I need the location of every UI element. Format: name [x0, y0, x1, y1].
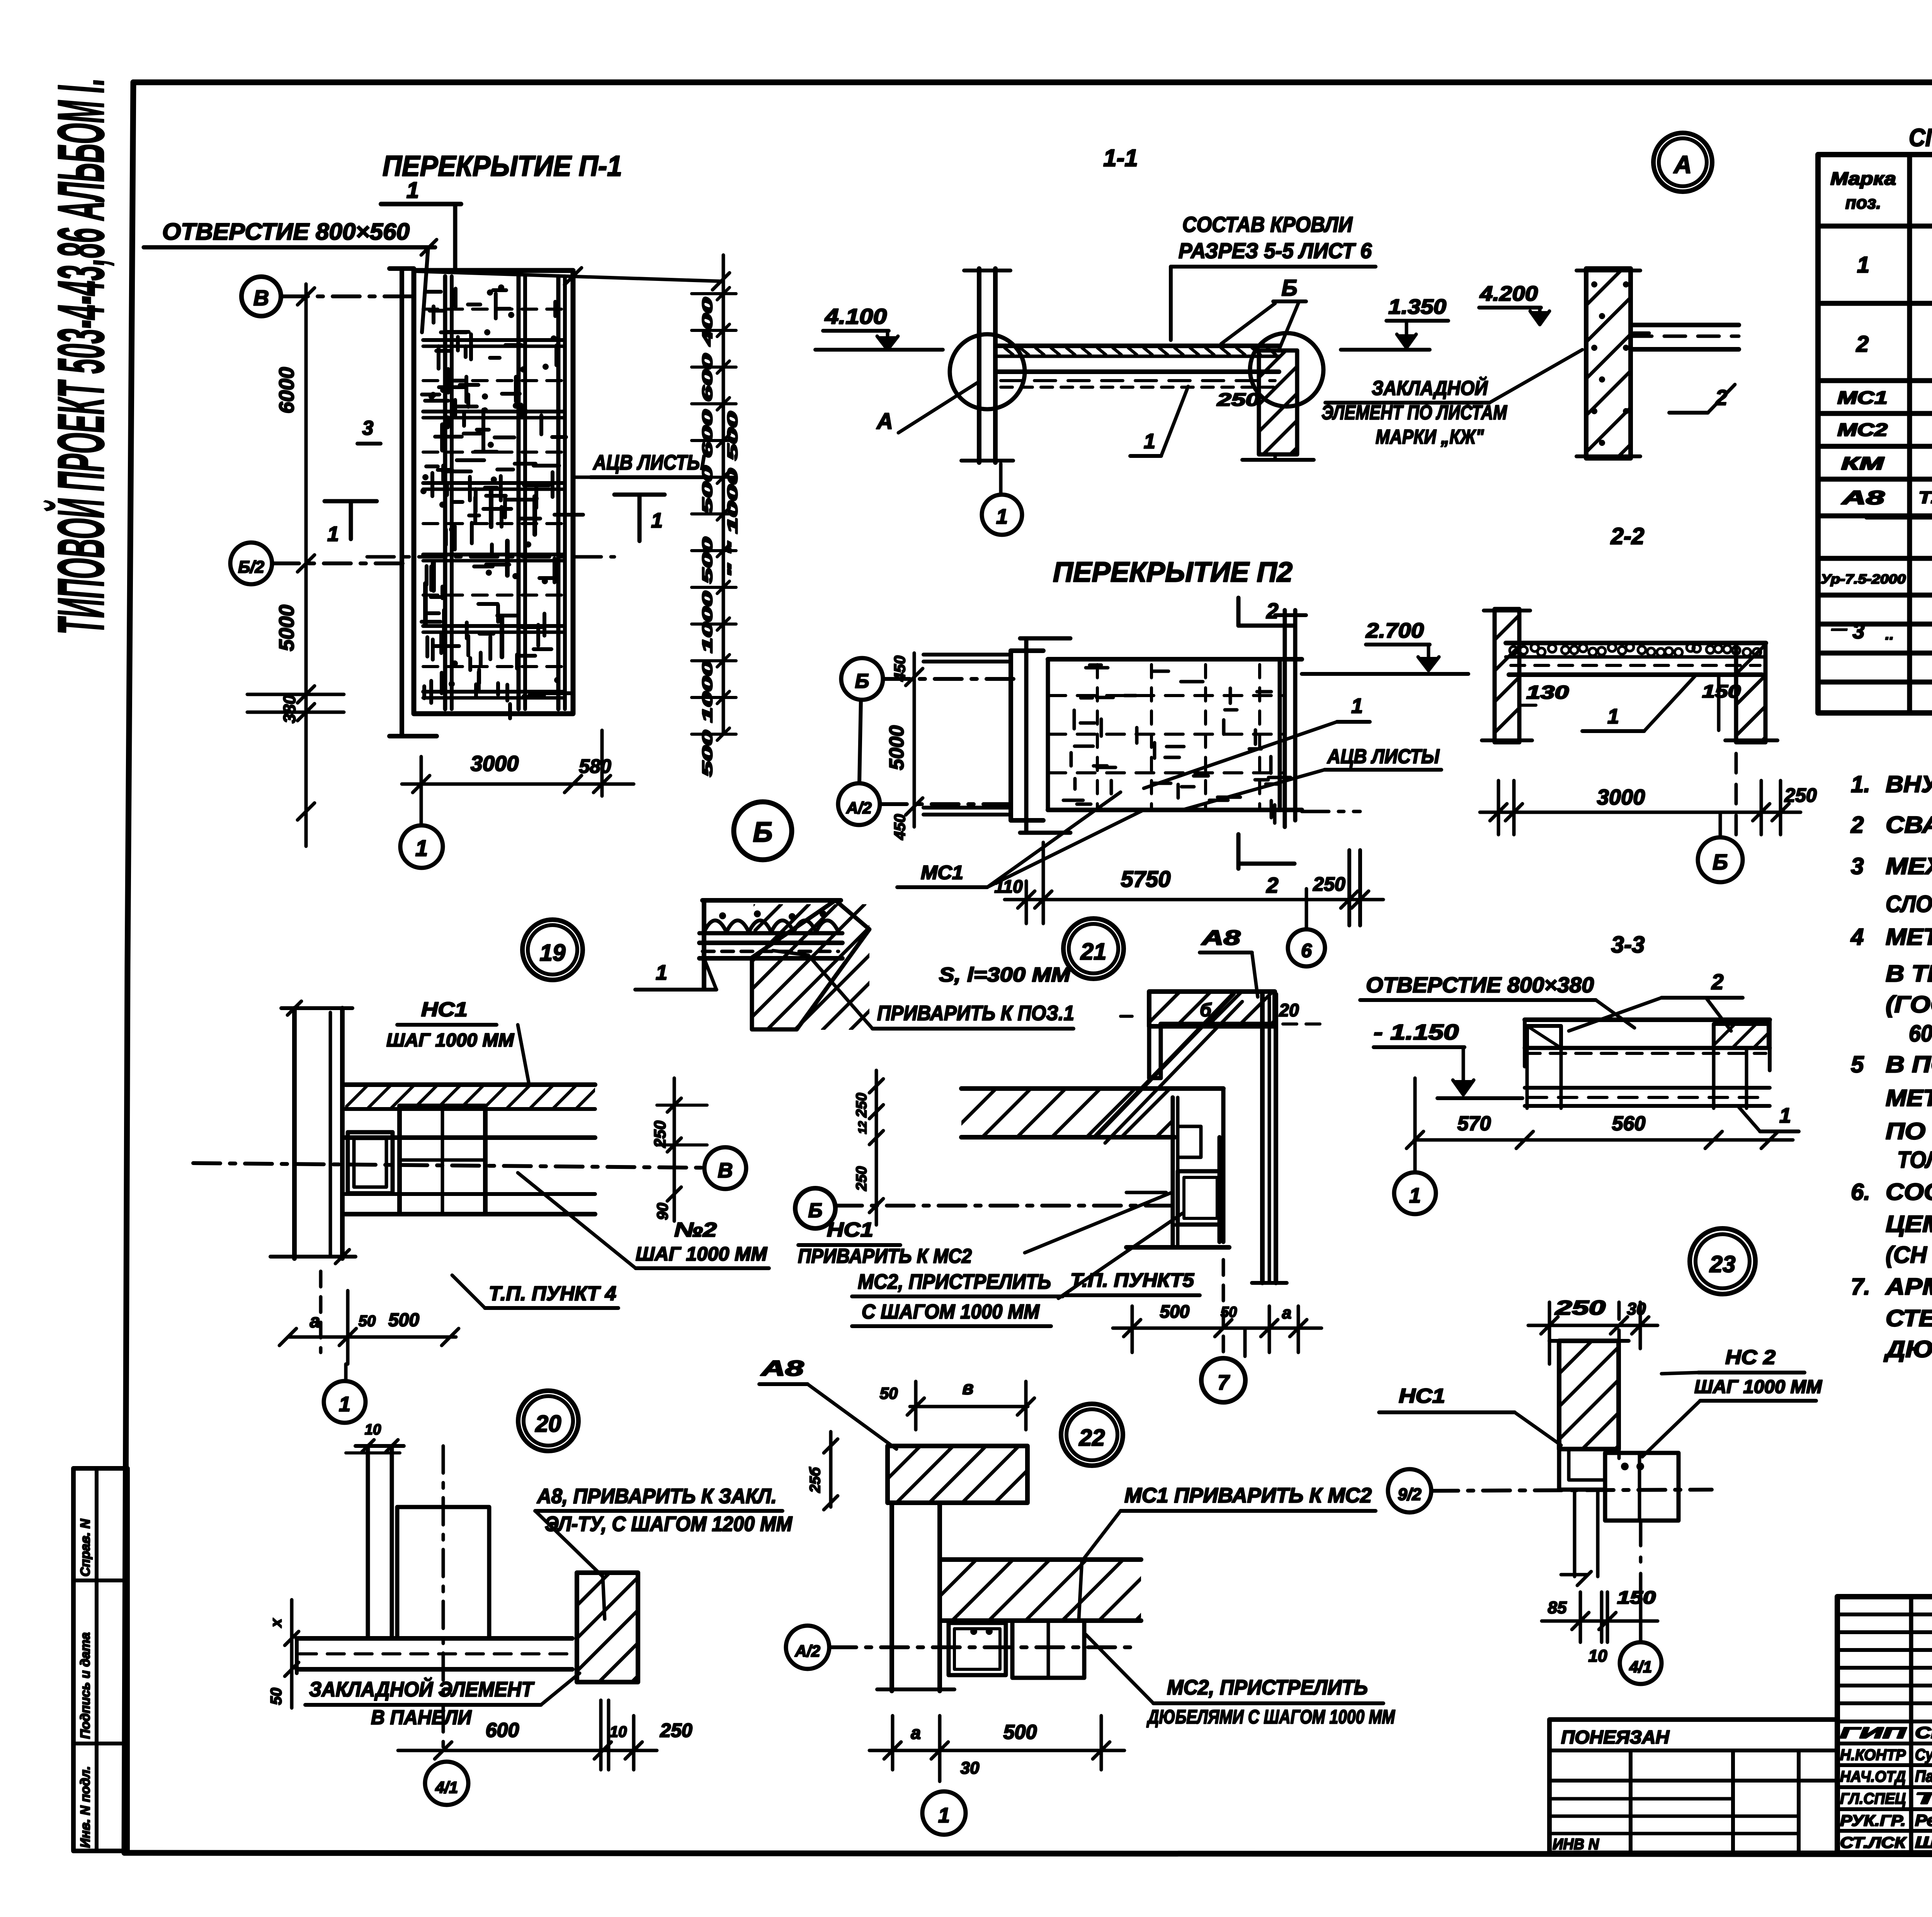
detail number 22	[1061, 1404, 1123, 1466]
svg-text:ПЕРЕКРЫТИЕ П-1: ПЕРЕКРЫТИЕ П-1	[383, 150, 622, 182]
detail number 21	[1063, 919, 1124, 979]
svg-text:570: 570	[1458, 1112, 1491, 1135]
svg-text:10: 10	[1588, 1647, 1607, 1665]
svg-text:СТ.ЛСК: СТ.ЛСК	[1840, 1834, 1907, 1851]
svg-text:Сухновская: Сухновская	[1915, 1745, 1932, 1764]
top dimension line to right column	[415, 271, 723, 281]
detail 21 bottom dim 500 50 a	[1131, 1306, 1134, 1352]
svg-text:250: 250	[854, 1166, 870, 1191]
svg-text:МЕТАЛЛИЧЕСКИЕ ФАХВЕРКОВЫЕ С: МЕТАЛЛИЧЕСКИЕ ФАХВЕРКОВЫЕ СТОЙКИ ОШТУКАТ…	[1886, 1085, 1932, 1111]
svg-text:НАЧ.ОТД: НАЧ.ОТД	[1840, 1768, 1906, 1785]
svg-text:ТОЛЩИНОЙ 25: ТОЛЩИНОЙ 25	[1897, 1146, 1932, 1173]
svg-text:МС1: МС1	[921, 862, 963, 883]
2-2 right wall (concrete)	[1586, 269, 1631, 458]
svg-text:Б: Б	[753, 817, 773, 848]
svg-text:2: 2	[1856, 332, 1869, 357]
svg-text:1: 1	[1857, 252, 1869, 277]
svg-text:ПЕРЕКРЫТИЕ П2: ПЕРЕКРЫТИЕ П2	[1053, 557, 1293, 588]
svg-text:НС 2: НС 2	[1725, 1346, 1776, 1369]
svg-text:АЦВ ЛИСТЫ: АЦВ ЛИСТЫ	[1327, 745, 1440, 768]
1-1 right column	[1259, 350, 1297, 454]
section mark 1 (top)	[381, 202, 461, 206]
svg-text:..: ..	[1885, 626, 1894, 643]
2-2 bottom dimension 3000 250	[1497, 781, 1500, 835]
svg-text:А8: А8	[760, 1356, 804, 1380]
detail number 20	[518, 1391, 578, 1451]
slab entering from right	[1631, 323, 1739, 327]
svg-text:поз.: поз.	[1845, 192, 1881, 213]
svg-text:1: 1	[327, 522, 339, 546]
section mark 1 (left mid)	[325, 499, 377, 503]
svg-text:МС1: МС1	[1837, 388, 1888, 408]
diagonal brace	[1096, 994, 1233, 1136]
svg-text:В ТЕПЛОВОМ ПУНКТЕ ОШТУКАТУРИ: В ТЕПЛОВОМ ПУНКТЕ ОШТУКАТУРИТЬ ПО СЕТКЕ …	[1886, 961, 1932, 987]
svg-text:85: 85	[1548, 1598, 1567, 1617]
svg-text:7.: 7.	[1851, 1274, 1870, 1300]
svg-text:СОСТАВ КРОВЛИ: СОСТАВ КРОВЛИ	[1182, 212, 1353, 236]
axis circle 4/1 (detail 20)	[425, 1762, 468, 1805]
svg-text:3000: 3000	[471, 751, 519, 776]
svg-text:А/2: А/2	[846, 799, 871, 817]
svg-text:ШАГ 1000 ММ: ШАГ 1000 ММ	[636, 1243, 767, 1265]
2-2 right wall	[1736, 643, 1765, 742]
axis circles Б and А/2 of П2	[841, 658, 883, 700]
svg-text:500: 500	[1003, 1721, 1037, 1744]
svg-text:3: 3	[362, 417, 374, 439]
svg-text:5750: 5750	[1121, 867, 1170, 892]
svg-text:20: 20	[535, 1411, 561, 1437]
svg-text:МАРКИ „КЖ": МАРКИ „КЖ"	[1376, 426, 1484, 448]
svg-text:ЦЕМЕНТ МАРКИ 400 С СООТНОШЕН: ЦЕМЕНТ МАРКИ 400 С СООТНОШЕНИЕМ 1:4.5	[1886, 1211, 1932, 1237]
slab to the left, hatched	[961, 1086, 1223, 1091]
detail 21 concrete block	[1149, 992, 1275, 1026]
svg-text:Т.П.503-4-43.86 - КЖ1-18: Т.П.503-4-43.86 - КЖ1-18	[1918, 488, 1932, 507]
svg-text:500: 500	[388, 1310, 419, 1330]
1-1 left column	[977, 269, 981, 463]
svg-text:1: 1	[1351, 694, 1363, 718]
svg-text:600: 600	[486, 1719, 519, 1742]
axis circle 1 (detail 22)	[922, 1791, 966, 1835]
svg-text:22: 22	[1079, 1425, 1105, 1451]
vertical dim 25	[829, 1432, 833, 1507]
double axis circle А	[1653, 133, 1712, 192]
svg-text:2.700: 2.700	[1366, 619, 1424, 642]
3-3 dimension 570 560	[1413, 1078, 1417, 1173]
left dim a x 50	[290, 1600, 294, 1708]
svg-text:ДЮБЕЛЕЙ МАРКИ ДП 4,6×60 ПО: ДЮБЕЛЕЙ МАРКИ ДП 4,6×60 ПО ТУ-14-794-77.	[1883, 1336, 1932, 1362]
svg-text:Т.П. ПУНКТ 4: Т.П. ПУНКТ 4	[489, 1283, 616, 1305]
svg-text:21: 21	[1080, 939, 1107, 964]
detail 19 bottom dimension a 50 500	[319, 1271, 323, 1352]
svg-text:250: 250	[651, 1121, 669, 1148]
svg-text:Тарн: Тарн	[1915, 1789, 1932, 1807]
svg-text:(ГОСТ 5336-80) ОГНЕЗАЩИТНЫМ: (ГОСТ 5336-80) ОГНЕЗАЩИТНЫМ РАСТВОРОМ ТО…	[1886, 991, 1932, 1017]
svg-text:4/1: 4/1	[435, 1778, 458, 1796]
page border frame	[133, 80, 1932, 85]
detail number 19	[522, 920, 583, 980]
svg-text:4/1: 4/1	[1629, 1658, 1652, 1676]
section mark 2 (top)	[1236, 598, 1241, 626]
svg-text:1: 1	[406, 178, 419, 203]
slab beam of 1-1	[995, 344, 1279, 348]
right dimension column with panel steps	[722, 255, 725, 734]
svg-text:90: 90	[654, 1203, 671, 1220]
detail 22 slab hatched	[940, 1557, 1141, 1562]
svg-text:НС1: НС1	[421, 998, 468, 1021]
П2 vertical dimension 5000	[913, 653, 916, 827]
svg-text:ШАГ 1000 ММ: ШАГ 1000 ММ	[1694, 1377, 1822, 1397]
svg-text:250: 250	[1217, 390, 1260, 410]
detail 23 bracket assembly	[1559, 1449, 1604, 1490]
detail 20 bottom dim 600 10 250	[398, 1749, 657, 1752]
svg-text:ЗАКЛАДНОЙ: ЗАКЛАДНОЙ	[1372, 376, 1488, 400]
svg-text:Ур-7.5-2000: Ур-7.5-2000	[1821, 572, 1906, 587]
svg-text:6000: 6000	[275, 367, 298, 413]
vertical lines below	[1573, 1490, 1577, 1577]
svg-text:Б: Б	[808, 1199, 823, 1222]
svg-text:ПРИВАРИТЬ К МС2: ПРИВАРИТЬ К МС2	[798, 1245, 972, 1267]
svg-text:РАЗРЕЗ 5-5 ЛИСТ 6: РАЗРЕЗ 5-5 ЛИСТ 6	[1179, 238, 1372, 263]
svg-text:ЗАКЛАДНОЙ ЭЛЕМЕНТ: ЗАКЛАДНОЙ ЭЛЕМЕНТ	[309, 1677, 535, 1701]
top small dim	[346, 1451, 400, 1454]
svg-text:МС1 ПРИВАРИТЬ К МС2: МС1 ПРИВАРИТЬ К МС2	[1124, 1484, 1372, 1507]
svg-text:1: 1	[1144, 430, 1155, 453]
detail 20 hatched block	[577, 1573, 638, 1682]
bottom slab lines	[345, 1192, 595, 1196]
svg-text:ЭЛЕМЕНТ ПО ЛИСТАМ: ЭЛЕМЕНТ ПО ЛИСТАМ	[1321, 401, 1507, 424]
svg-text:В ПАНЕЛИ: В ПАНЕЛИ	[371, 1706, 472, 1729]
svg-text:А8, ПРИВАРИТЬ К ЗАКЛ.: А8, ПРИВАРИТЬ К ЗАКЛ.	[536, 1485, 777, 1508]
svg-text:5000: 5000	[886, 725, 908, 770]
svg-text:" " 1000 500: " " 1000 500	[724, 412, 740, 578]
svg-text:НС1: НС1	[1399, 1385, 1445, 1407]
svg-text:СПЕЦИФИКАЦИЯ ИЗДЕЛИЙ К ЛИСТУ: СПЕЦИФИКАЦИЯ ИЗДЕЛИЙ К ЛИСТУ 19	[1909, 123, 1932, 151]
svg-text:а: а	[310, 1311, 320, 1332]
svg-text:АРМАТУРНЫЕ СЕТКИ В МЕСТАХ: АРМАТУРНЫЕ СЕТКИ В МЕСТАХ ПРИМЫКАНИЯ К	[1885, 1274, 1932, 1300]
svg-text:ВНУТРЕННЯЯ ОТДЕЛКА НА УЗЛАХ УС: ВНУТРЕННЯЯ ОТДЕЛКА НА УЗЛАХ УСЛОВНО НЕ П…	[1886, 771, 1932, 797]
2-2 left wall	[1495, 609, 1519, 742]
svg-text:150: 150	[1702, 681, 1741, 701]
svg-text:2: 2	[1266, 873, 1278, 897]
svg-text:- 1.150: - 1.150	[1374, 1020, 1459, 1044]
svg-text:А: А	[1673, 151, 1692, 179]
svg-text:МС2, ПРИСТРЕЛИТЬ: МС2, ПРИСТРЕЛИТЬ	[1167, 1676, 1368, 1699]
П2 slab edge lines to right	[1302, 672, 1468, 676]
П2 plan: axis Б dash-dot	[883, 677, 1020, 681]
detail 23 hatched column	[1559, 1341, 1619, 1449]
svg-text:3-3: 3-3	[1611, 932, 1645, 958]
vertical dim 250 12 250	[875, 1070, 878, 1225]
section mark 2 (bottom)	[1236, 834, 1241, 869]
svg-text:в: в	[963, 1378, 974, 1398]
svg-text:А8: А8	[1201, 926, 1240, 949]
svg-text:МЕЖДУ КОЛОННАМИ И ГРАНЬЮ КЛ: МЕЖДУ КОЛОННАМИ И ГРАНЬЮ КЛАДКИ ПРОЛОЖИТ…	[1886, 853, 1932, 879]
svg-text:ДЮБЕЛЯМИ С ШАГОМ 1000 ММ: ДЮБЕЛЯМИ С ШАГОМ 1000 ММ	[1146, 1706, 1395, 1728]
П2 internal grid	[1048, 694, 1285, 697]
svg-text:250: 250	[854, 1093, 870, 1118]
svg-text:В ПОМЕЩЕНИЯХ С КАТЕГОРИЕЙ П: В ПОМЕЩЕНИЯХ С КАТЕГОРИЕЙ ПРОИЗВОДСТВ А.…	[1886, 1051, 1932, 1077]
svg-text:СТЕНАМ, К КОЛОННАМ ЗАКРЕПИТЬ: СТЕНАМ, К КОЛОННАМ ЗАКРЕПИТЬ С ПОМОЩЬЮ	[1886, 1305, 1932, 1331]
svg-text:1: 1	[656, 961, 667, 984]
svg-text:НС1: НС1	[827, 1219, 873, 1241]
svg-text:В: В	[253, 286, 269, 310]
П2 plan right edge double line	[1283, 610, 1287, 827]
svg-text:Б: Б	[1281, 276, 1297, 301]
detail 22 column	[889, 1503, 894, 1691]
svg-text:Марка: Марка	[1830, 168, 1896, 189]
detail 20 centreline	[442, 1446, 445, 1750]
svg-text:С ШАГОМ 1000 ММ: С ШАГОМ 1000 ММ	[862, 1301, 1040, 1323]
svg-text:250: 250	[1555, 1297, 1606, 1319]
svg-text:ИНВ N: ИНВ N	[1553, 1836, 1599, 1853]
svg-text:560: 560	[1612, 1112, 1646, 1135]
svg-text:Т.П. ПУНКТ5: Т.П. ПУНКТ5	[1070, 1269, 1194, 1291]
svg-text:ГЛ.СПЕЦ: ГЛ.СПЕЦ	[1840, 1790, 1906, 1807]
2-2 slab	[1506, 641, 1766, 645]
svg-text:Сюнкер: Сюнкер	[1915, 1723, 1932, 1742]
svg-text:19: 19	[540, 940, 566, 966]
svg-text:Справ. N: Справ. N	[78, 1519, 93, 1577]
svg-text:ОТВЕРСТИЕ 800×560: ОТВЕРСТИЕ 800×560	[162, 219, 410, 245]
bottom dimension 3000 / 580	[420, 757, 423, 825]
svg-text:23: 23	[1709, 1251, 1736, 1277]
svg-text:ШАГ 1000 ММ: ШАГ 1000 ММ	[386, 1030, 514, 1051]
vertical dim 250 / 90	[673, 1078, 676, 1221]
svg-text:МС2: МС2	[1837, 420, 1888, 440]
section mark 1 (right mid)	[614, 493, 665, 497]
svg-text:1: 1	[938, 1804, 950, 1827]
svg-text:580: 580	[579, 755, 611, 777]
svg-text:А8: А8	[1841, 487, 1885, 509]
svg-text:Подпись и дата: Подпись и дата	[78, 1632, 93, 1739]
detail 20 slab	[297, 1636, 572, 1641]
axis circle 1 (detail 19)	[324, 1381, 366, 1423]
svg-text:1.: 1.	[1851, 771, 1870, 797]
svg-text:ПОНЕЯЗАН: ПОНЕЯЗАН	[1561, 1727, 1670, 1748]
detail 20 wide panel	[397, 1507, 489, 1638]
axis circle Б (below П-1)	[734, 802, 792, 860]
axis circle 1	[1394, 1172, 1436, 1214]
axis circle Б with axis	[795, 1188, 835, 1228]
svg-text:2-2: 2-2	[1611, 523, 1645, 549]
svg-text:Б: Б	[855, 670, 869, 692]
svg-text:(СН 290-74): (СН 290-74)	[1886, 1242, 1932, 1268]
3-3 lower band	[1525, 1086, 1770, 1090]
svg-text:3: 3	[1851, 853, 1864, 879]
bottom-left stamp table	[73, 1468, 128, 1851]
svg-text:Б/2: Б/2	[238, 558, 264, 577]
svg-text:АЦВ ЛИСТЫ: АЦВ ЛИСТЫ	[592, 451, 706, 474]
svg-text:5: 5	[1851, 1051, 1864, 1077]
svg-text:25б: 25б	[807, 1467, 823, 1493]
svg-text:20: 20	[1279, 1000, 1299, 1020]
svg-text:1: 1	[339, 1393, 350, 1416]
svg-text:1: 1	[415, 836, 428, 861]
svg-text:6: 6	[1301, 940, 1312, 961]
svg-text:50: 50	[268, 1688, 285, 1705]
detail 22 hatched block	[888, 1446, 1027, 1503]
svg-text:В: В	[718, 1159, 733, 1182]
svg-text:30: 30	[961, 1759, 980, 1778]
detail 21 wall column right	[1260, 994, 1265, 1283]
П2 plan outline	[1011, 651, 1043, 820]
axis circle 7	[1201, 1358, 1245, 1402]
svg-text:ЭЛ-ТУ, С ШАГОМ 1200 ММ: ЭЛ-ТУ, С ШАГОМ 1200 ММ	[545, 1512, 793, 1536]
svg-text:250: 250	[1313, 873, 1345, 895]
svg-text:10: 10	[610, 1723, 627, 1740]
detail callout circle (left joint)	[950, 334, 1025, 409]
svg-text:СОСТАВ ОГНЕЗАЩИТНОГО ШТУКА: СОСТАВ ОГНЕЗАЩИТНОГО ШТУКАТУРНОГО РАСТВО…	[1886, 1179, 1932, 1205]
svg-text:1-1: 1-1	[1103, 145, 1138, 172]
svg-text:МЕТАЛЛИЧЕСКИЕ ПРОГОНЫ (ПОЗ 1): МЕТАЛЛИЧЕСКИЕ ПРОГОНЫ (ПОЗ 1) И ФАХВЕРКО…	[1886, 924, 1932, 950]
svg-text:ПРИВАРИТЬ К ПОЗ.1: ПРИВАРИТЬ К ПОЗ.1	[877, 1002, 1074, 1025]
svg-text:130: 130	[1526, 682, 1569, 703]
svg-text:4: 4	[1850, 924, 1864, 950]
channel squares	[348, 1132, 393, 1193]
svg-text:№2: №2	[674, 1219, 717, 1241]
svg-text:1.350: 1.350	[1388, 295, 1446, 318]
vertical dimension line 6000/5000/380	[304, 284, 308, 846]
svg-text:а: а	[1282, 1303, 1291, 1322]
svg-text:50: 50	[359, 1313, 376, 1330]
svg-text:Н.КОНТР: Н.КОНТР	[1840, 1747, 1906, 1764]
svg-text:2: 2	[1850, 812, 1864, 838]
svg-text:А/2: А/2	[794, 1642, 820, 1660]
svg-text:10: 10	[365, 1422, 381, 1438]
svg-text:9/2: 9/2	[1398, 1485, 1422, 1504]
svg-text:а: а	[911, 1723, 921, 1743]
centre axis dash-dot	[367, 555, 614, 559]
centre dash-dot through detail 19	[193, 1163, 705, 1168]
svg-text:2: 2	[1266, 599, 1278, 623]
axis circle 4/1 (detail 23)	[1620, 1642, 1662, 1684]
axis circle 1 (bottom)	[400, 825, 443, 868]
svg-text:СЛОЙ ТОЛЯ: СЛОЙ ТОЛЯ	[1886, 891, 1932, 917]
detail 20 narrow column	[366, 1446, 370, 1638]
svg-text:60 ММ: 60 ММ	[1909, 1021, 1932, 1046]
svg-text:500 1000 1000 500: 500 1000 1000 500	[699, 537, 715, 777]
axis circle 1 (below 1-1)	[982, 495, 1022, 535]
svg-text:ПО СЕТКЕ РN°10-1,2 ОГНЕЗАЩ: ПО СЕТКЕ РN°10-1,2 ОГНЕЗАЩИТНЫМ РАСТВОРО…	[1886, 1118, 1932, 1144]
svg-text:4.100: 4.100	[825, 304, 887, 328]
svg-text:1: 1	[996, 505, 1008, 528]
detail 19 slab w/ hatch	[345, 1082, 595, 1087]
specification table grid	[1818, 155, 1932, 713]
detail 19: roof slab piece	[702, 898, 841, 903]
axis circle Б/2	[230, 543, 272, 584]
svg-text:1: 1	[1409, 1184, 1421, 1207]
svg-text:А: А	[876, 409, 893, 434]
svg-text:—: —	[1831, 620, 1847, 637]
axis circle В	[704, 1147, 746, 1189]
detail number 23	[1690, 1228, 1755, 1294]
svg-text:3000: 3000	[1597, 785, 1645, 809]
svg-text:30: 30	[1627, 1300, 1646, 1318]
svg-text:250: 250	[660, 1720, 692, 1741]
channel squares below slab	[949, 1623, 1006, 1675]
detail callout circle (right joint)	[1250, 333, 1323, 407]
3-3 slab	[1525, 1017, 1770, 1022]
svg-text:1: 1	[651, 509, 663, 532]
axis circle 9/2 with axis	[1388, 1469, 1431, 1512]
axis circle А/2 with axis	[786, 1626, 829, 1669]
detail 19: hatched wall corner	[752, 900, 869, 1029]
left attachment table	[1549, 1720, 1837, 1853]
П-1 slab plan outline	[400, 269, 404, 736]
svg-text:500 600 600 400: 500 600 600 400	[699, 298, 715, 514]
assembly below	[1171, 1097, 1175, 1247]
axis circle 6 (В)	[1288, 929, 1325, 966]
svg-text:Пашинцева: Пашинцева	[1915, 1767, 1932, 1785]
П2 bottom dimension 110 5750 250	[1042, 842, 1045, 924]
svg-text:МС2, ПРИСТРЕЛИТЬ: МС2, ПРИСТРЕЛИТЬ	[858, 1270, 1051, 1293]
detail 19 column	[292, 1008, 297, 1259]
svg-text:КМ: КМ	[1841, 453, 1885, 473]
svg-text:12: 12	[856, 1121, 869, 1134]
plan internal panel structure	[443, 276, 447, 709]
svg-text:6.: 6.	[1851, 1179, 1870, 1205]
svg-text:110: 110	[994, 876, 1023, 896]
svg-text:Редькина: Редькина	[1915, 1811, 1932, 1829]
svg-text:Инв. N подл.: Инв. N подл.	[78, 1766, 93, 1848]
svg-text:3: 3	[1852, 619, 1864, 643]
svg-text:х: х	[268, 1618, 285, 1628]
detail 22 bottom dim a 500 30	[891, 1716, 895, 1770]
svg-text:1: 1	[1607, 705, 1619, 728]
svg-text:500: 500	[1160, 1301, 1190, 1322]
svg-text:380: 380	[280, 695, 299, 723]
title block outer frame	[1837, 1597, 1932, 1853]
svg-text:50: 50	[1221, 1304, 1237, 1320]
svg-text:7: 7	[1218, 1371, 1230, 1394]
svg-text:РУК.ГР.: РУК.ГР.	[1840, 1812, 1906, 1829]
svg-text:ОТВЕРСТИЕ 800×380: ОТВЕРСТИЕ 800×380	[1366, 973, 1594, 997]
svg-text:150: 150	[1617, 1587, 1656, 1607]
axis circle Б (below 2-2)	[1698, 837, 1743, 882]
svg-text:Б: Б	[1713, 850, 1728, 874]
svg-text:ТИПОВОЙ ПРОЕКТ 503-4-43,86 АЛ: ТИПОВОЙ ПРОЕКТ 503-4-43,86 АЛЬБОМ I.	[43, 78, 118, 634]
svg-text:250: 250	[1784, 784, 1817, 806]
svg-text:1: 1	[1779, 1104, 1791, 1127]
title block signature grid	[1909, 1597, 1913, 1853]
svg-text:СВАРКУ ВЕСТИ ЭЛЕКТРОДАМИ ТИ: СВАРКУ ВЕСТИ ЭЛЕКТРОДАМИ ТИП Э-42 (ГОСТ …	[1886, 812, 1932, 838]
svg-text:S, l=300 ММ: S, l=300 ММ	[939, 964, 1071, 986]
svg-text:5000: 5000	[275, 605, 298, 651]
svg-text:Шапиро: Шапиро	[1915, 1833, 1932, 1851]
svg-text:ГИП: ГИП	[1840, 1725, 1907, 1742]
svg-text:50: 50	[880, 1384, 898, 1402]
svg-text:4.200: 4.200	[1480, 282, 1538, 305]
svg-text:2: 2	[1711, 970, 1723, 994]
axis circle В	[241, 277, 281, 316]
svg-text:450: 450	[891, 814, 908, 840]
svg-text:450: 450	[891, 656, 908, 682]
